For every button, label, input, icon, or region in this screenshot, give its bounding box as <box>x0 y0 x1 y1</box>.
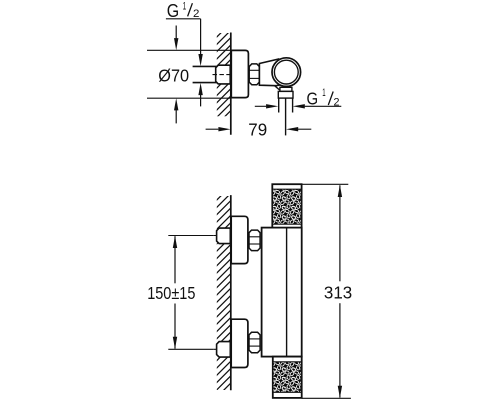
G1/2 leader with arrow to pipe top <box>200 19 202 55</box>
svg-text:313: 313 <box>324 283 352 303</box>
escutcheon flange (upper view) <box>231 50 248 97</box>
upper in-wall pipe end <box>217 228 231 244</box>
upper escutcheon flange <box>231 216 248 263</box>
79 dimension right arrow <box>286 127 298 131</box>
svg-text:2: 2 <box>334 97 340 109</box>
150±15 dimension line with arrows <box>174 236 176 283</box>
upper connection nut <box>249 230 260 251</box>
lower in-wall pipe end <box>217 342 231 358</box>
wall hatching (lower view) <box>216 185 232 400</box>
hose stub left edge <box>278 98 280 112</box>
Ø70 dimension arrow upper <box>175 26 177 40</box>
valve head inner circle <box>274 60 298 84</box>
valve head outer circle <box>272 58 301 87</box>
svg-text:79: 79 <box>248 120 267 140</box>
extension line top (Ø70) <box>147 49 232 51</box>
wall surface line (upper view) <box>230 33 232 135</box>
lower connection nut <box>249 332 260 352</box>
body to outlet joint line <box>275 86 280 90</box>
Ø70 dimension arrow lower <box>175 110 177 124</box>
upper union centerline / 150 extension <box>168 235 214 237</box>
mixer body <box>262 228 302 357</box>
313 dimension line with arrows <box>339 185 341 281</box>
thermostat handle (knurled, top) <box>272 184 301 227</box>
supply pipe (upper view) <box>193 65 217 67</box>
valve body cone (upper view) <box>259 59 282 86</box>
volume handle (knurled, bottom) <box>273 357 302 398</box>
connection nut (upper view) <box>249 64 259 85</box>
svg-text:2: 2 <box>193 8 199 20</box>
body cover seam line <box>286 228 288 357</box>
svg-text:G: G <box>307 89 319 109</box>
outlet flange <box>280 87 292 91</box>
G1/2 (hose) dimension arrows <box>255 105 266 107</box>
svg-text:150±15: 150±15 <box>147 283 195 303</box>
outlet nut <box>278 91 293 98</box>
svg-text:1: 1 <box>183 0 187 12</box>
lower union centerline / 150 extension <box>168 348 214 350</box>
hose stub right edge <box>292 98 294 112</box>
extension line bottom (Ø70) <box>147 97 232 99</box>
wall surface line (lower view) <box>230 195 232 390</box>
G1/2 label underline <box>166 18 201 20</box>
hose centerline <box>285 98 287 135</box>
svg-text:G: G <box>167 0 179 21</box>
svg-text:1: 1 <box>322 87 325 99</box>
79 dimension left arrow <box>206 128 219 130</box>
313 extension line bottom <box>302 397 351 399</box>
G1/2 arrow to pipe bottom <box>200 95 202 107</box>
313 extension line top <box>302 183 349 185</box>
lower escutcheon flange <box>231 319 248 367</box>
svg-text:Ø70: Ø70 <box>158 65 189 85</box>
wall hatching (upper view) <box>216 22 232 133</box>
in-wall pipe end (upper view) <box>216 65 231 84</box>
centerline of pipe (upper view) <box>213 74 231 76</box>
